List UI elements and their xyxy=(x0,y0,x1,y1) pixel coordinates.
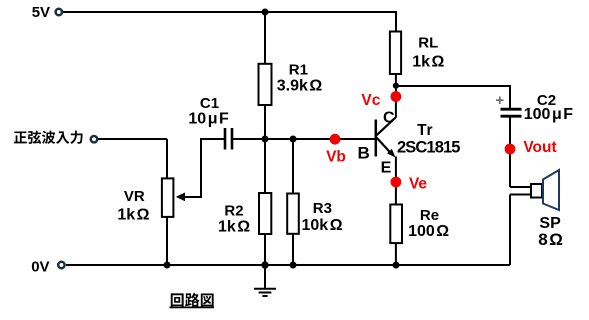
svg-text:R2: R2 xyxy=(224,202,243,219)
svg-text:2SC1815: 2SC1815 xyxy=(397,139,460,157)
svg-text:0V: 0V xyxy=(31,258,49,275)
svg-text:B: B xyxy=(357,144,369,163)
svg-text:R1: R1 xyxy=(289,61,308,78)
svg-text:C1: C1 xyxy=(200,95,219,112)
svg-text:E: E xyxy=(381,160,392,177)
svg-text:8Ω: 8Ω xyxy=(538,230,563,249)
svg-text:100Ω: 100Ω xyxy=(408,223,449,240)
svg-text:Vb: Vb xyxy=(326,148,346,165)
svg-text:5V: 5V xyxy=(32,4,50,21)
svg-text:+: + xyxy=(495,92,504,109)
svg-text:10kΩ: 10kΩ xyxy=(301,217,342,234)
svg-text:Vout: Vout xyxy=(523,139,556,156)
svg-text:100μF: 100μF xyxy=(524,106,574,123)
svg-text:1kΩ: 1kΩ xyxy=(218,219,250,236)
svg-text:Re: Re xyxy=(420,207,439,224)
svg-text:C: C xyxy=(383,109,395,126)
svg-text:1kΩ: 1kΩ xyxy=(117,207,149,224)
svg-text:1kΩ: 1kΩ xyxy=(412,53,444,70)
svg-text:Ve: Ve xyxy=(409,175,427,192)
svg-text:Tr: Tr xyxy=(417,122,433,139)
svg-text:Vc: Vc xyxy=(361,92,380,109)
svg-text:RL: RL xyxy=(418,35,438,52)
svg-text:3.9kΩ: 3.9kΩ xyxy=(277,78,323,95)
svg-text:R3: R3 xyxy=(313,200,332,217)
svg-text:VR: VR xyxy=(124,188,145,205)
svg-text:10μF: 10μF xyxy=(188,110,229,127)
